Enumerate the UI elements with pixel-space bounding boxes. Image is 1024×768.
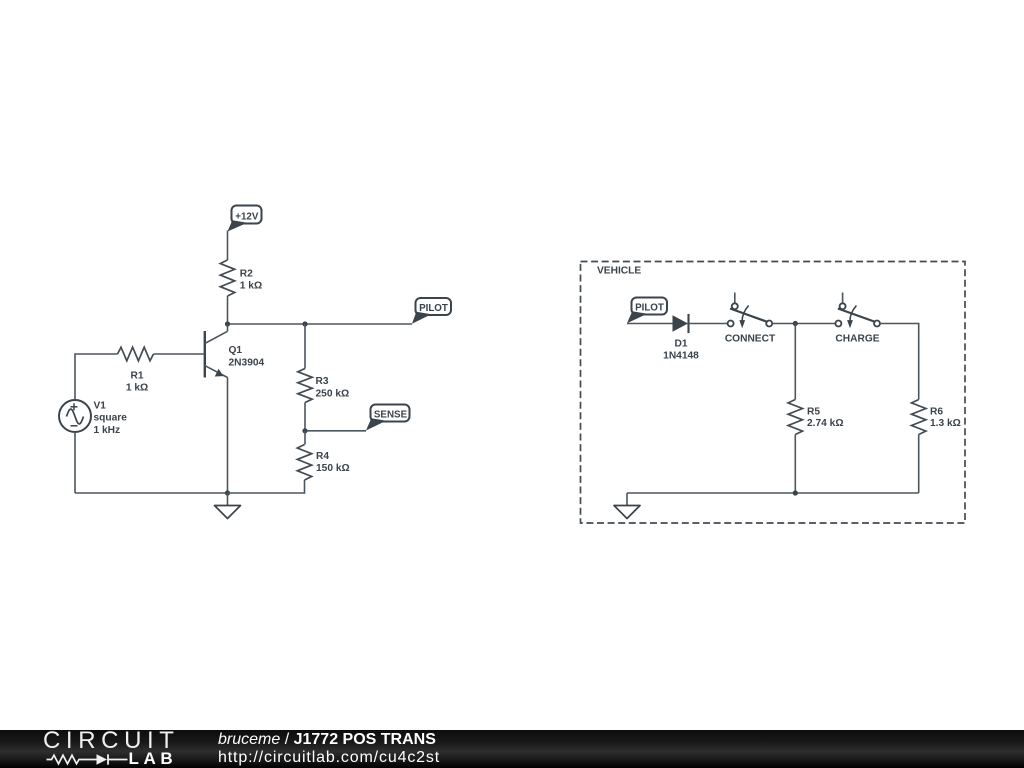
- VEHICLE enclosure (dashed box): [581, 262, 966, 524]
- svg-text:R5: R5: [807, 407, 820, 418]
- junction: R5 bottom node: [793, 490, 798, 495]
- svg-text:1 kΩ: 1 kΩ: [126, 383, 148, 394]
- footer title text: [218, 731, 440, 767]
- wire: bottom rail emitter node to R4 bottom: [228, 480, 305, 493]
- transistor Q1 2N3904: [205, 324, 228, 378]
- svg-text:+12V: +12V: [235, 212, 259, 223]
- wire: PILOT node down to R3 top: [304, 324, 306, 369]
- junction: collector node: [225, 321, 230, 326]
- svg-text:square: square: [94, 413, 128, 424]
- svg-text:R2: R2: [240, 268, 253, 279]
- wire: bottom rail V1 to emitter node: [75, 492, 228, 494]
- wire: Q1 emitter to ground rail: [227, 378, 229, 494]
- net flag PILOT (vehicle): [627, 298, 667, 324]
- svg-text:1 kΩ: 1 kΩ: [240, 281, 262, 292]
- junction: SENSE node: [302, 428, 307, 433]
- wire: CHARGE to R6 top: [880, 324, 919, 400]
- wire: PILOT flag to D1 anode: [627, 323, 673, 325]
- wire: R5 bottom to ground rail: [794, 435, 796, 494]
- svg-text:1N4148: 1N4148: [663, 351, 699, 362]
- resistor R4: [297, 445, 311, 481]
- svg-text:2.74 kΩ: 2.74 kΩ: [807, 418, 844, 429]
- resistor R2: [220, 260, 234, 296]
- CircuitLab logo: [42, 731, 242, 767]
- wire: vehicle ground rail: [627, 492, 919, 494]
- svg-text:R4: R4: [316, 451, 329, 462]
- svg-text:PILOT: PILOT: [419, 303, 448, 314]
- svg-text:V1: V1: [94, 401, 107, 412]
- wire: R1 right to Q1 base: [154, 353, 205, 355]
- svg-text:D1: D1: [674, 339, 687, 350]
- svg-text:1 kHz: 1 kHz: [94, 425, 121, 436]
- wire: R2 bottom to collector node: [227, 296, 229, 324]
- switch CONNECT: [728, 293, 773, 329]
- wire: CONNECT to CHARGE switch: [772, 323, 835, 325]
- net flag +12V: [228, 206, 262, 232]
- wire: +12V flag tail to R2 top: [227, 231, 229, 261]
- svg-text:R6: R6: [930, 407, 943, 418]
- wire: D1 cathode to CONNECT switch: [689, 323, 728, 325]
- wire: R6 bottom to ground rail: [918, 435, 920, 494]
- wire: collector node to PILOT flag: [228, 323, 413, 325]
- ground (vehicle): [614, 493, 640, 519]
- wire: V1 top to R1 left: [75, 354, 118, 400]
- resistor R1: [118, 347, 154, 361]
- svg-text:CONNECT: CONNECT: [725, 334, 776, 345]
- svg-text:2N3904: 2N3904: [229, 357, 265, 368]
- svg-text:Q1: Q1: [229, 345, 243, 356]
- junction: R5 top node: [793, 321, 798, 326]
- net flag PILOT (left): [412, 298, 451, 324]
- resistor R6: [912, 400, 926, 435]
- svg-text:1.3 kΩ: 1.3 kΩ: [930, 418, 961, 429]
- svg-text:R1: R1: [130, 370, 143, 381]
- junction: R3 top node: [302, 321, 307, 326]
- wire: V1 bottom to ground rail: [74, 432, 76, 493]
- svg-text:R3: R3: [316, 376, 329, 387]
- svg-text:CHARGE: CHARGE: [835, 334, 879, 345]
- diode D1 1N4148: [673, 314, 689, 333]
- logo resistor-diode glyph: [42, 742, 142, 768]
- switch CHARGE: [835, 293, 880, 329]
- svg-text:150 kΩ: 150 kΩ: [316, 463, 350, 474]
- svg-text:PILOT: PILOT: [635, 303, 664, 314]
- footer bar: [0, 730, 1024, 768]
- svg-text:250 kΩ: 250 kΩ: [316, 388, 350, 399]
- wire: SENSE node to SENSE flag: [305, 430, 366, 432]
- wire: R5 top node down to R5: [794, 324, 796, 400]
- svg-text:VEHICLE: VEHICLE: [597, 266, 641, 277]
- wire: SENSE node to R4 top: [304, 431, 306, 445]
- net flag SENSE: [366, 405, 410, 431]
- svg-text:SENSE: SENSE: [374, 410, 408, 421]
- junction: emitter/ground node: [225, 490, 230, 495]
- voltage source V1: [59, 400, 91, 432]
- resistor R5: [788, 400, 802, 435]
- ground (left circuit): [215, 493, 241, 519]
- wire: R3 bottom to SENSE node: [304, 403, 306, 431]
- resistor R3: [298, 369, 312, 403]
